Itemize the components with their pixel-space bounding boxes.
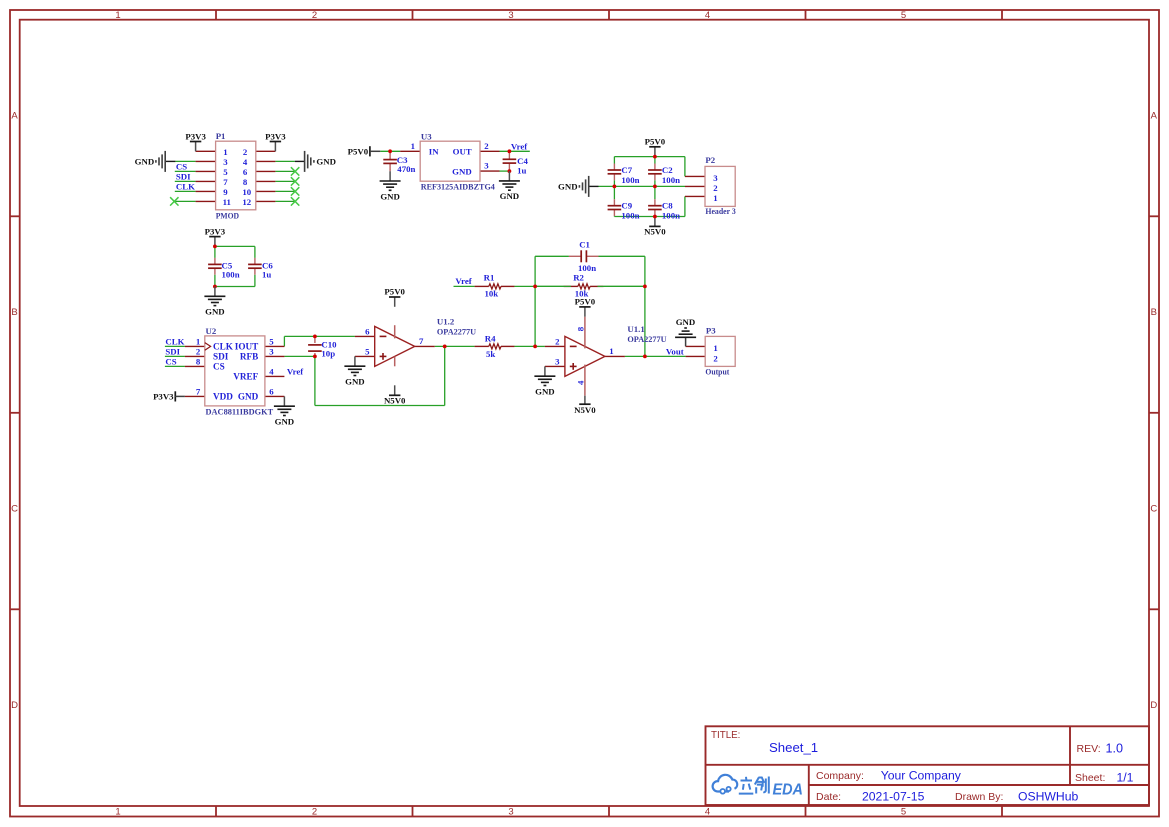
svg-text:2: 2 <box>555 337 560 347</box>
svg-text:GND: GND <box>380 191 400 201</box>
svg-text:3: 3 <box>508 10 513 21</box>
svg-text:5k: 5k <box>486 349 495 359</box>
svg-text:R4: R4 <box>485 334 496 344</box>
svg-text:U2: U2 <box>206 326 217 336</box>
svg-text:Header 3: Header 3 <box>705 206 736 216</box>
svg-text:6: 6 <box>365 327 370 337</box>
svg-text:10p: 10p <box>321 349 335 359</box>
svg-text:GND: GND <box>205 307 225 317</box>
svg-text:CS: CS <box>165 357 176 367</box>
svg-text:10k: 10k <box>485 289 499 299</box>
svg-text:100n: 100n <box>222 270 240 280</box>
svg-text:1u: 1u <box>262 270 271 280</box>
svg-text:3: 3 <box>223 157 228 167</box>
svg-text:2: 2 <box>196 347 201 357</box>
svg-text:7: 7 <box>223 177 228 187</box>
svg-text:GND: GND <box>345 377 365 387</box>
svg-text:A: A <box>1151 111 1158 122</box>
svg-text:4: 4 <box>705 10 710 21</box>
svg-text:GND: GND <box>558 182 578 192</box>
svg-text:8: 8 <box>575 326 585 331</box>
svg-text:P5V0: P5V0 <box>384 287 405 297</box>
svg-text:6: 6 <box>243 167 248 177</box>
svg-text:7: 7 <box>419 336 424 346</box>
svg-text:3: 3 <box>269 347 274 357</box>
svg-text:CLK: CLK <box>165 337 184 347</box>
svg-text:C: C <box>1150 504 1157 515</box>
svg-text:C8: C8 <box>662 201 673 211</box>
svg-text:GND: GND <box>316 157 336 167</box>
svg-text:TITLE:: TITLE: <box>711 730 740 741</box>
svg-text:CS: CS <box>176 162 187 172</box>
svg-text:N5V0: N5V0 <box>384 396 406 406</box>
svg-text:3: 3 <box>484 161 489 171</box>
svg-text:470n: 470n <box>397 164 415 174</box>
svg-text:P3V3: P3V3 <box>185 132 206 142</box>
svg-text:OSHWHub: OSHWHub <box>1018 790 1078 804</box>
svg-text:IOUT: IOUT <box>235 342 259 352</box>
svg-text:2: 2 <box>312 10 317 21</box>
svg-text:SDI: SDI <box>213 352 229 362</box>
svg-text:OUT: OUT <box>453 147 472 157</box>
svg-text:1: 1 <box>713 343 717 353</box>
svg-text:5: 5 <box>901 10 906 21</box>
svg-text:5: 5 <box>269 337 274 347</box>
svg-text:A: A <box>11 111 18 122</box>
svg-text:RFB: RFB <box>240 352 258 362</box>
svg-text:2021-07-15: 2021-07-15 <box>862 790 925 804</box>
svg-text:8: 8 <box>243 177 248 187</box>
svg-text:100n: 100n <box>621 210 639 220</box>
svg-text:EDA: EDA <box>773 781 804 798</box>
svg-text:Sheet:: Sheet: <box>1075 772 1105 784</box>
svg-text:1: 1 <box>609 346 613 356</box>
svg-text:GND: GND <box>275 417 295 427</box>
svg-text:P3V3: P3V3 <box>265 132 286 142</box>
svg-text:Sheet_1: Sheet_1 <box>769 740 818 755</box>
svg-text:100n: 100n <box>578 263 596 273</box>
svg-text:5: 5 <box>365 347 370 357</box>
svg-text:4: 4 <box>243 157 248 167</box>
svg-text:D: D <box>1150 700 1157 711</box>
svg-text:3: 3 <box>508 807 513 818</box>
svg-text:100n: 100n <box>621 175 639 185</box>
svg-text:C1: C1 <box>579 240 590 250</box>
svg-text:P5V0: P5V0 <box>645 137 666 147</box>
svg-text:VREF: VREF <box>233 372 258 382</box>
svg-text:10: 10 <box>242 187 251 197</box>
svg-text:1/1: 1/1 <box>1117 771 1134 785</box>
svg-text:P1: P1 <box>216 131 226 141</box>
svg-text:100n: 100n <box>662 210 680 220</box>
svg-text:Vout: Vout <box>666 346 684 356</box>
svg-text:12: 12 <box>242 197 251 207</box>
svg-text:1u: 1u <box>517 166 526 176</box>
svg-text:P2: P2 <box>705 155 715 165</box>
svg-text:REV:: REV: <box>1077 743 1101 755</box>
svg-text:GND: GND <box>535 387 555 397</box>
svg-text:B: B <box>1151 307 1157 318</box>
svg-text:U1.2: U1.2 <box>437 317 455 327</box>
svg-text:DAC8811IBDGKT: DAC8811IBDGKT <box>206 406 274 416</box>
svg-text:GND: GND <box>452 166 472 176</box>
svg-text:1: 1 <box>115 807 120 818</box>
svg-text:4: 4 <box>269 367 274 377</box>
svg-text:2: 2 <box>713 353 718 363</box>
svg-text:Output: Output <box>705 367 729 377</box>
svg-text:C: C <box>11 504 18 515</box>
svg-text:SDI: SDI <box>165 347 180 357</box>
svg-text:GND: GND <box>238 392 259 402</box>
svg-text:N5V0: N5V0 <box>644 227 666 237</box>
svg-text:Your Company: Your Company <box>881 768 962 782</box>
svg-text:B: B <box>11 307 17 318</box>
svg-text:5: 5 <box>223 167 228 177</box>
svg-text:Vref: Vref <box>511 141 528 151</box>
svg-text:4: 4 <box>575 380 585 385</box>
svg-text:2: 2 <box>713 183 718 193</box>
svg-text:CLK: CLK <box>213 342 234 352</box>
svg-text:P3V3: P3V3 <box>153 392 174 402</box>
svg-text:Drawn By:: Drawn By: <box>955 791 1003 803</box>
svg-text:SDI: SDI <box>176 172 191 182</box>
svg-text:1: 1 <box>196 337 200 347</box>
svg-text:1: 1 <box>713 193 717 203</box>
svg-text:GND: GND <box>135 157 155 167</box>
svg-text:Date:: Date: <box>816 791 841 803</box>
svg-text:11: 11 <box>223 197 231 207</box>
svg-text:C4: C4 <box>517 156 528 166</box>
svg-text:R1: R1 <box>484 273 495 283</box>
svg-text:N5V0: N5V0 <box>574 405 596 415</box>
svg-text:7: 7 <box>196 387 201 397</box>
svg-text:2: 2 <box>312 807 317 818</box>
svg-text:GND: GND <box>500 191 520 201</box>
svg-text:1.0: 1.0 <box>1106 742 1124 756</box>
svg-text:CS: CS <box>213 362 225 372</box>
svg-text:6: 6 <box>269 387 274 397</box>
svg-text:C7: C7 <box>621 165 632 175</box>
svg-text:8: 8 <box>196 357 201 367</box>
svg-text:1: 1 <box>115 10 120 21</box>
svg-text:C2: C2 <box>662 165 673 175</box>
svg-text:IN: IN <box>429 147 439 157</box>
svg-text:VDD: VDD <box>213 392 233 402</box>
svg-text:Vref: Vref <box>455 276 472 286</box>
svg-text:2: 2 <box>243 147 248 157</box>
svg-text:100n: 100n <box>662 175 680 185</box>
svg-text:U1.1: U1.1 <box>627 324 644 334</box>
svg-text:Company:: Company: <box>816 770 864 782</box>
svg-text:U3: U3 <box>421 131 432 141</box>
svg-text:REF3125AIDBZTG4: REF3125AIDBZTG4 <box>421 182 496 192</box>
svg-text:P3V3: P3V3 <box>205 226 226 236</box>
svg-text:Vref: Vref <box>287 367 304 377</box>
svg-text:3: 3 <box>713 173 718 183</box>
svg-text:OPA2277U: OPA2277U <box>437 327 477 337</box>
svg-text:GND: GND <box>676 317 696 327</box>
svg-text:P3: P3 <box>706 326 716 336</box>
svg-text:OPA2277U: OPA2277U <box>627 334 667 344</box>
svg-text:9: 9 <box>223 187 228 197</box>
svg-text:R2: R2 <box>573 273 584 283</box>
svg-text:CLK: CLK <box>176 182 195 192</box>
svg-text:1: 1 <box>223 147 227 157</box>
svg-text:P5V0: P5V0 <box>575 297 596 307</box>
svg-text:P5V0: P5V0 <box>348 146 369 156</box>
svg-text:D: D <box>11 700 18 711</box>
svg-text:3: 3 <box>555 357 560 367</box>
svg-text:1: 1 <box>411 141 415 151</box>
svg-text:PMOD: PMOD <box>216 211 239 221</box>
svg-text:2: 2 <box>484 141 489 151</box>
svg-text:C9: C9 <box>621 201 632 211</box>
svg-text:4: 4 <box>705 807 710 818</box>
svg-text:5: 5 <box>901 807 906 818</box>
